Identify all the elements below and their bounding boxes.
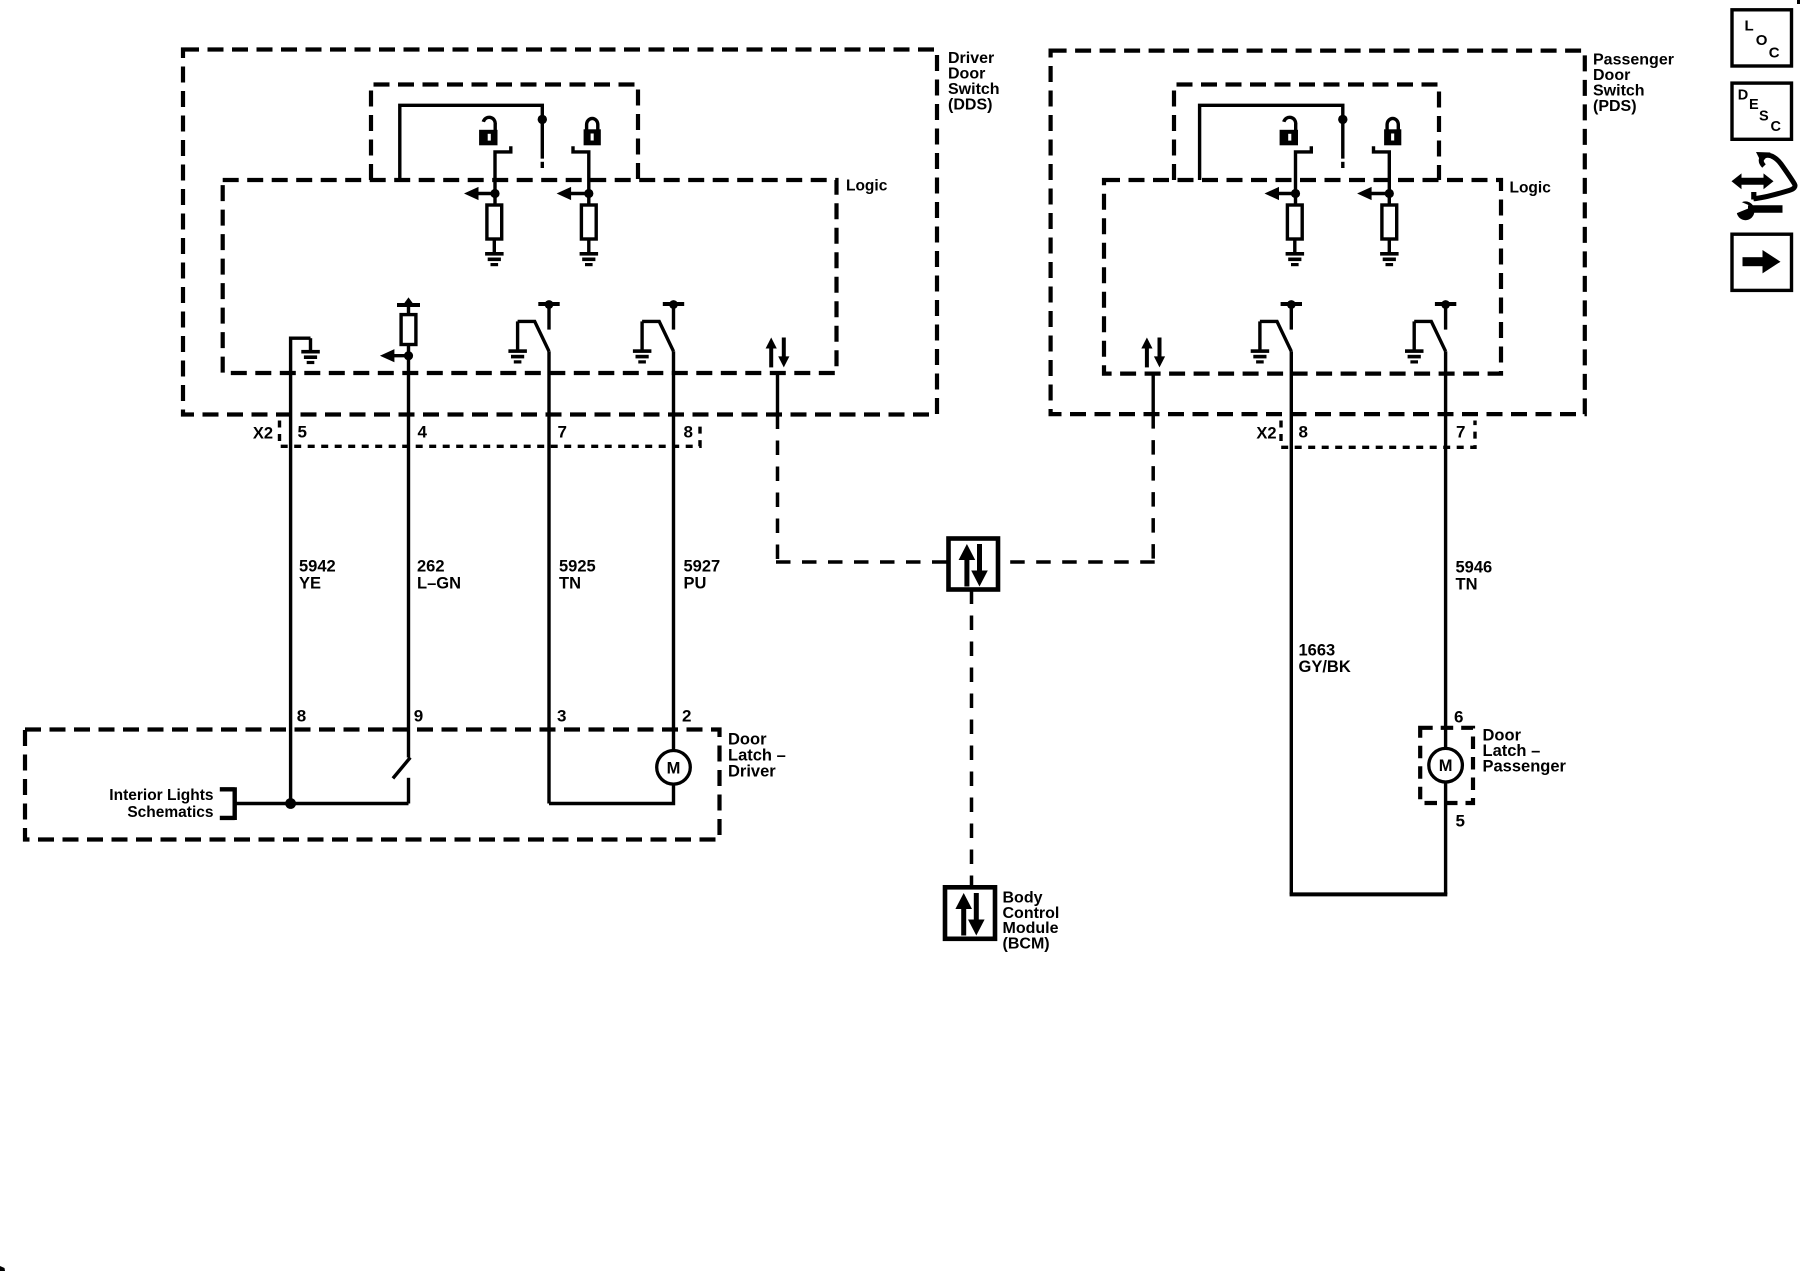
off-page bracket (interior lights) [220,787,235,820]
serial data arrows (splice box) [959,544,988,587]
Logic box (passenger) [1104,180,1501,374]
unlock pull-up resistor (driver) [487,205,502,239]
stray mark bottom-left [0,1266,5,1271]
ground lead (driver pin5) [309,338,312,350]
Door Latch - Driver box [25,730,720,840]
svg-text:Passenger: Passenger [1483,758,1567,776]
unlock drive switch (passenger pin7) blade [1414,321,1445,351]
unlock drive switch (driver pin2) terminal bar [663,300,684,309]
motor bottom wire (passenger) [1444,781,1447,894]
svg-text:O: O [1756,32,1768,49]
svg-text:Driver: Driver [728,763,776,781]
svg-text:Interior Lights: Interior Lights [109,787,213,804]
svg-text:3: 3 [557,707,566,726]
open pole dash segment (driver) [541,162,544,168]
lock indicator driver (lock padlock icon) [584,118,601,145]
stub to resistor (driver pin4) [407,307,410,315]
signal arrow (driver pin4) [380,349,413,362]
unlock drive switch (driver pin2) blade [642,321,673,351]
svg-text:TN: TN [559,575,581,593]
junction dot on pole wire (passenger) [1338,115,1347,124]
svg-text:Logic: Logic [1510,180,1552,197]
ground under unlock resistor (driver) [485,252,504,266]
lock status switch (passenger pin8) fixed contact [1290,306,1293,330]
svg-text:Passenger: Passenger [1593,52,1674,69]
svg-text:D: D [1738,88,1748,104]
svg-text:X2: X2 [253,425,273,443]
svg-text:5: 5 [1456,812,1465,831]
svg-text:Switch: Switch [1593,83,1645,100]
icon: forward arrow box [1732,234,1792,290]
wire resistor to ground (driver unlock) [493,239,496,253]
unlock indicator passenger (unlock padlock icon) [1280,117,1298,145]
svg-text:8: 8 [1299,423,1308,442]
door ajar switch blade (driver latch) [393,758,410,779]
svg-text:8: 8 [684,423,693,442]
unlock drive switch (passenger pin7) terminal bar [1435,300,1456,309]
motor bottom wire to pin3 wire (driver) [549,784,674,804]
svg-text:(BCM): (BCM) [1003,935,1050,952]
svg-text:Door: Door [1593,67,1630,84]
ground under lock resistor (passenger) [1380,252,1399,266]
Door Latch - Passenger box [1420,728,1473,803]
switch pole wire loop (passenger) [1200,105,1343,180]
wire pin8 down (passenger) [1290,351,1293,894]
unlock drive switch (driver pin2) ground lead [640,321,643,349]
wire resistor to ground (driver lock) [587,239,590,253]
open pole dash segment (passenger) [1341,162,1344,168]
svg-text:PU: PU [684,575,707,593]
svg-text:YE: YE [299,575,321,593]
svg-text:9: 9 [414,707,423,726]
svg-text:C: C [1769,45,1780,62]
resistor R (driver pin4) [401,315,416,345]
svg-text:Driver: Driver [948,50,994,67]
icon: data exchange / wrench [1732,152,1795,220]
connector X2 (passenger) [1281,421,1475,448]
wire pin7 down to motor (passenger) [1444,351,1447,749]
svg-text:S: S [1759,109,1769,125]
svg-text:X2: X2 [1256,425,1276,443]
svg-text:E: E [1749,97,1759,113]
unlock drive switch (passenger pin7) fixed contact [1444,306,1447,330]
interior lights feed wire [236,802,408,805]
unlock drive switch (passenger pin7) ground symbol [1405,349,1424,363]
svg-text:Switch: Switch [948,81,1000,98]
serial data dashed wire to BCM [970,590,974,888]
lock/unlock switch sub-box (driver) [371,85,638,181]
unlock drive switch (driver pin2) ground symbol [633,349,652,363]
lock signal arrow (driver) [557,187,594,200]
unlock drive switch (driver pin2) fixed contact [672,306,675,330]
connector X2 (driver) [280,421,701,447]
svg-text:8: 8 [297,707,306,726]
lock indicator passenger (lock padlock icon) [1384,118,1401,145]
unlock indicator driver (unlock padlock icon) [479,117,497,145]
serial data lead solid (driver) [776,373,779,415]
svg-text:GY/BK: GY/BK [1299,658,1351,676]
lock status switch (driver pin3) terminal bar [538,300,559,309]
unlock signal arrow (driver) [464,187,500,200]
svg-text:5927: 5927 [684,558,721,576]
svg-text:5925: 5925 [559,558,596,576]
serial data wire dashed down (driver) [776,415,780,563]
lock status switch (driver pin3) blade [518,321,549,351]
icon: DESC box [1732,83,1792,139]
ground symbol logic (driver pin5) [301,350,320,364]
ground under unlock resistor (passenger) [1286,252,1305,266]
junction dot pin8 wire [285,798,296,809]
svg-text:4: 4 [418,423,428,442]
wire pin4 down (driver) [407,345,410,758]
lock status switch (driver pin3) fixed contact [547,306,550,330]
svg-text:2: 2 [682,707,691,726]
lock status switch (passenger pin8) ground symbol [1251,349,1270,363]
lock switch contact step (driver) [573,146,589,205]
unlock drive switch (passenger pin7) ground lead [1412,321,1415,349]
Driver Door Switch (DDS) module box [183,50,937,415]
lock pull-up resistor (driver) [581,205,596,239]
svg-text:(DDS): (DDS) [948,97,992,114]
icon: LOC box [1732,10,1792,66]
svg-text:TN: TN [1456,576,1478,594]
lock pull-up resistor (passenger) [1382,205,1397,239]
wire pin7/3 down (driver) [547,351,550,803]
svg-text:M: M [667,759,681,777]
unlock pull-up resistor (passenger) [1287,205,1302,239]
door latch motor M passenger (motor) [1429,748,1463,782]
svg-text:7: 7 [1456,423,1465,442]
wire resistor to ground (passenger unlock) [1293,239,1296,253]
lock signal arrow (passenger) [1357,187,1394,200]
bottom return wire (passenger) [1290,892,1448,896]
svg-text:5942: 5942 [299,558,336,576]
switch pole wire loop (driver) [400,105,543,180]
unlock switch contact step (driver) [495,146,511,205]
serial data wire dashed to splice (passenger) [998,560,1155,564]
svg-text:Logic: Logic [846,178,888,195]
svg-text:5946: 5946 [1456,559,1493,577]
lock status switch (driver pin3) ground symbol [508,349,527,363]
svg-text:M: M [1439,757,1453,775]
svg-text:Schematics: Schematics [127,804,213,821]
svg-text:Door: Door [948,66,985,83]
serial data lead solid (passenger) [1151,374,1154,415]
svg-text:1663: 1663 [1299,642,1336,660]
wire resistor to ground (passenger lock) [1388,239,1391,253]
junction dot on pole wire (driver) [538,115,547,124]
svg-text:C: C [1771,119,1782,135]
svg-text:5: 5 [298,423,307,442]
svg-text:262: 262 [417,558,445,576]
Logic box (driver) [223,180,837,373]
ground under lock resistor (driver) [580,252,599,266]
svg-text:L: L [1745,18,1754,35]
lock switch contact step (passenger) [1374,146,1390,205]
door ajar switch lower contact (driver latch) [407,778,410,804]
svg-text:(PDS): (PDS) [1593,98,1637,115]
Body Control Module (BCM) box [945,887,995,939]
terminal bar with arrow (driver pin4) [397,297,420,307]
serial data symbol (driver logic) [766,338,790,368]
unlock switch contact step (passenger) [1296,146,1312,205]
serial data wire dashed down (passenger) [1151,414,1155,562]
door latch motor M driver (motor) [657,751,691,785]
Passenger Door Switch (PDS) module box [1051,51,1585,415]
wire pin8/2 down to motor (driver) [672,351,675,751]
serial data arrows (BCM) [955,893,984,936]
svg-text:L–GN: L–GN [417,575,461,593]
unlock signal arrow (passenger) [1265,187,1301,200]
lock/unlock switch sub-box (passenger) [1174,85,1439,181]
stray mark top-right [1797,0,1800,4]
serial data wire dashed to splice [776,560,949,564]
lock status switch (driver pin3) ground lead [516,321,519,349]
svg-text:6: 6 [1454,708,1463,727]
lock status switch (passenger pin8) blade [1260,321,1291,351]
serial data symbol (passenger logic) [1141,338,1165,368]
serial data splice box [949,539,999,590]
lock status switch (passenger pin8) terminal bar [1281,300,1302,309]
lock status switch (passenger pin8) ground lead [1258,321,1261,349]
ground return wire pin 5 (driver) [291,338,311,803]
svg-text:7: 7 [558,423,567,442]
